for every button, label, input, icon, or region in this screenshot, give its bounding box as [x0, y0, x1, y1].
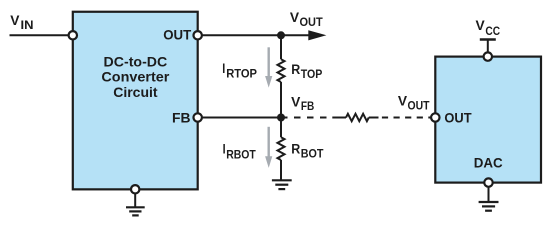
- svg-text:IN: IN: [21, 20, 34, 32]
- wire OUT to VOUT rail: [202, 34, 310, 36]
- pin FB (U1 right): [194, 113, 202, 121]
- svg-text:DAC: DAC: [474, 155, 503, 171]
- svg-text:V: V: [10, 13, 19, 28]
- pin GND (U1 bottom): [131, 185, 139, 193]
- wire DAC ground stub: [488, 187, 490, 202]
- pin VCC (DAC top): [484, 52, 492, 60]
- svg-text:I: I: [222, 61, 225, 76]
- ground (U1): [126, 207, 145, 215]
- label RTOP: [291, 62, 322, 81]
- wire VCC stub: [487, 40, 489, 54]
- svg-text:I: I: [223, 141, 226, 156]
- svg-text:BOT: BOT: [301, 149, 324, 161]
- DC-to-DC converter block U1: [73, 12, 198, 190]
- wire U1 ground stub: [134, 194, 136, 208]
- svg-text:Circuit: Circuit: [113, 85, 158, 101]
- label VIN: [10, 13, 33, 32]
- wire vertical rail OUT to RTOP: [280, 35, 282, 59]
- svg-text:V: V: [291, 94, 300, 109]
- DAC block U2: [435, 57, 541, 183]
- wire VIN input: [10, 34, 69, 36]
- label VFB: [291, 94, 314, 113]
- svg-text:FB: FB: [301, 101, 314, 113]
- node junction at VOUT rail: [277, 31, 285, 39]
- pin VIN (U1 left): [69, 31, 77, 39]
- node VFB junction: [277, 114, 285, 122]
- label RBOT: [291, 141, 323, 160]
- svg-text:OUT: OUT: [163, 27, 191, 43]
- current arrow IRBOT: [265, 127, 272, 168]
- svg-text:OUT: OUT: [444, 109, 472, 125]
- pin OUT (U1 right top): [194, 31, 202, 39]
- svg-text:R: R: [291, 62, 300, 77]
- svg-text:DC-to-DC: DC-to-DC: [104, 54, 168, 70]
- wire resistor right lead: [369, 117, 379, 119]
- svg-text:OUT: OUT: [300, 17, 323, 29]
- svg-text:R: R: [291, 141, 300, 156]
- svg-text:CC: CC: [485, 26, 500, 38]
- label IRBOT: [223, 141, 256, 161]
- U1 title text: [101, 54, 169, 101]
- svg-text:V: V: [398, 94, 407, 109]
- resistor (feedback, unlabeled): [346, 114, 369, 121]
- current arrow IRTOP: [265, 47, 272, 87]
- arrow VOUT: [308, 30, 326, 40]
- pin GND (DAC bottom): [484, 178, 492, 186]
- wire RBOT to ground: [280, 160, 282, 180]
- resistor RTOP: [278, 59, 285, 82]
- svg-text:RBOT: RBOT: [226, 149, 256, 161]
- svg-text:V: V: [290, 10, 299, 25]
- svg-text:V: V: [476, 18, 485, 33]
- svg-text:RTOP: RTOP: [226, 69, 257, 81]
- label VOUT top: [290, 10, 323, 29]
- label VCC: [476, 18, 501, 38]
- svg-text:OUT: OUT: [408, 100, 430, 112]
- svg-text:TOP: TOP: [301, 69, 323, 81]
- VCC supply bar: [480, 38, 496, 40]
- svg-text:Converter: Converter: [101, 70, 169, 86]
- wire resistor leads (solid): [332, 117, 346, 119]
- pin OUT (DAC left): [431, 113, 439, 121]
- dashed wire to DAC OUT: [382, 117, 431, 119]
- wire RTOP to VFB node: [280, 82, 282, 137]
- dashed feedback wire VFB to DAC: [281, 117, 333, 119]
- resistor RBOT: [278, 137, 285, 160]
- ground (DAC): [479, 202, 499, 211]
- wire FB pin to VFB node: [202, 117, 281, 119]
- label IRTOP: [222, 61, 257, 80]
- svg-text:FB: FB: [172, 109, 191, 125]
- label VOUT right: [398, 94, 430, 113]
- ground (RBOT): [272, 180, 292, 189]
